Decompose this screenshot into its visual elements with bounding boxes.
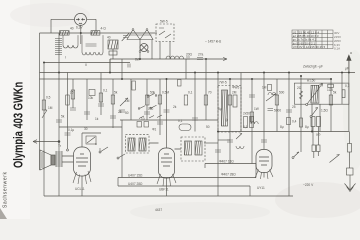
resistor Rd bbox=[178, 80, 182, 87]
wire rail x122 bbox=[121, 59, 123, 79]
band switch row 3 bbox=[139, 115, 162, 119]
tube V3 UY11 envelope bbox=[256, 150, 272, 173]
svg-text:25: 25 bbox=[118, 110, 122, 114]
ground symbol bbox=[345, 175, 356, 192]
wire rail x312 bbox=[311, 104, 313, 132]
svg-text:kv 95 60 30 6 2 1: kv 95 60 30 6 2 1 bbox=[293, 41, 316, 45]
tube V3 pins bbox=[255, 170, 273, 180]
svg-text:1Ω5: 1Ω5 bbox=[327, 88, 333, 92]
coil small L6 bbox=[236, 146, 244, 149]
resistor Rb bbox=[146, 95, 150, 105]
resistor Rn bbox=[71, 90, 75, 99]
svg-text:6,3V: 6,3V bbox=[76, 26, 83, 30]
capacitor Co bbox=[144, 112, 150, 114]
svg-text:Φ407 28Ω: Φ407 28Ω bbox=[221, 173, 236, 177]
capacitor Ce bbox=[192, 118, 198, 120]
capacitor Cg bbox=[249, 95, 255, 97]
oscillator coil bbox=[222, 90, 228, 126]
svg-text:UY11: UY11 bbox=[257, 186, 265, 190]
switch S1 bbox=[311, 108, 318, 117]
svg-text:5k: 5k bbox=[114, 91, 118, 95]
coil small L8 bbox=[251, 117, 258, 125]
resistor Rd2 bbox=[204, 95, 208, 105]
svg-text:0,5: 0,5 bbox=[46, 96, 51, 100]
tube V1 electrodes bbox=[76, 154, 88, 166]
svg-text:27a: 27a bbox=[198, 53, 204, 57]
switch S6 bbox=[330, 155, 340, 163]
wire rail x289 bbox=[288, 73, 290, 197]
band switch row 1 bbox=[149, 94, 155, 97]
svg-text:4·Ω: 4·Ω bbox=[101, 27, 107, 31]
svg-text:w.150: w.150 bbox=[307, 79, 316, 83]
potentiometer P3 bbox=[266, 94, 276, 101]
speaker magnet bbox=[51, 155, 55, 165]
wire rail x110 bbox=[109, 59, 111, 73]
svg-text:Φ1: Φ1 bbox=[152, 128, 157, 132]
IF T1 coil a bbox=[128, 138, 135, 151]
antenna coil winding bbox=[55, 39, 62, 55]
resistor Rc bbox=[184, 95, 188, 105]
svg-text:8μ: 8μ bbox=[305, 125, 309, 129]
variable core arrow bbox=[307, 84, 323, 105]
resistor Rm bbox=[111, 95, 115, 104]
junction dots bbox=[58, 72, 60, 74]
wire mid line bbox=[120, 119, 218, 121]
lamp La scale bbox=[140, 44, 148, 52]
svg-text:100: 100 bbox=[148, 107, 154, 111]
capacitor Cj bbox=[128, 64, 130, 68]
wire bus2 bbox=[40, 78, 332, 80]
IF transformer T2 box bbox=[181, 137, 205, 161]
wire x252 low bbox=[251, 140, 253, 164]
dashed box interior switch bbox=[159, 28, 171, 38]
svg-text:1W: 1W bbox=[254, 107, 259, 111]
svg-text:ΦW5: ΦW5 bbox=[232, 86, 240, 90]
wire osc bottom bbox=[218, 139, 230, 141]
svg-text:0,1μ: 0,1μ bbox=[68, 128, 74, 132]
resistor R24 bbox=[317, 117, 321, 127]
resistor R25 bbox=[312, 145, 316, 152]
wire rail x170 bbox=[169, 42, 171, 60]
svg-text:I: I bbox=[65, 56, 66, 60]
contact box b bbox=[144, 122, 149, 128]
resistor pair Ba bbox=[244, 117, 248, 128]
svg-text:a b: a b bbox=[316, 133, 321, 137]
wire rail x331 bbox=[330, 79, 332, 132]
svg-text:2M: 2M bbox=[232, 91, 237, 95]
output transformer bbox=[57, 152, 62, 166]
svg-text:8μ: 8μ bbox=[280, 125, 284, 129]
svg-text:2k: 2k bbox=[173, 105, 177, 109]
tube V4 electrodes bbox=[76, 18, 85, 23]
svg-text:U407 28Ω: U407 28Ω bbox=[128, 182, 143, 186]
svg-text:0,1: 0,1 bbox=[103, 89, 108, 93]
left margin strip bbox=[0, 0, 30, 219]
svg-text:30: 30 bbox=[84, 127, 88, 131]
svg-text:10: 10 bbox=[141, 117, 145, 121]
svg-text:5W·5: 5W·5 bbox=[160, 20, 168, 24]
resistor R2 hatched bbox=[91, 31, 100, 35]
tube V1 pins bbox=[73, 171, 91, 184]
speaker cone bbox=[40, 150, 51, 170]
IF transformer T1 box bbox=[126, 135, 150, 153]
wire rail x87 bbox=[86, 79, 88, 120]
resistor R23 bbox=[311, 117, 315, 127]
terminal circles bbox=[58, 29, 312, 159]
wire heater line 1 bbox=[205, 163, 256, 165]
tube V2 pins bbox=[157, 174, 176, 186]
wire rail x59 bbox=[58, 33, 60, 196]
wire rail x342 bbox=[341, 73, 343, 105]
svg-text:1M: 1M bbox=[125, 99, 130, 103]
wire bus1 bbox=[40, 72, 356, 74]
switch S2 bbox=[293, 152, 299, 158]
svg-text:gx 1x 7x 3x 8x 4 2: gx 1x 7x 3x 8x 4 2 bbox=[293, 38, 317, 42]
svg-text:U1 215 90 45 12 8 4: U1 215 90 45 12 8 4 bbox=[293, 30, 320, 34]
resistor Rl bbox=[158, 95, 162, 104]
svg-text:U407 15Ω: U407 15Ω bbox=[128, 174, 143, 178]
wire rail x348 bbox=[348, 57, 350, 132]
IF T1 coil b bbox=[139, 138, 146, 151]
wire rail x166 bbox=[166, 79, 168, 148]
svg-text:5k: 5k bbox=[333, 91, 337, 95]
small box R3 bbox=[109, 51, 117, 55]
svg-text:50k: 50k bbox=[150, 91, 156, 95]
capacitor Cn bbox=[110, 116, 116, 118]
resistor R27 bbox=[300, 118, 303, 127]
wire rail x147 bbox=[146, 79, 148, 120]
svg-text:0,1: 0,1 bbox=[345, 84, 350, 88]
arrow line end bbox=[223, 57, 227, 60]
svg-text:UBF11: UBF11 bbox=[159, 188, 169, 192]
svg-text:~ 1457 kHz: ~ 1457 kHz bbox=[205, 40, 222, 44]
resistor R20 bbox=[328, 84, 334, 87]
fuse holder bbox=[348, 144, 352, 153]
resistor Rh bbox=[329, 95, 333, 105]
svg-text:50: 50 bbox=[206, 125, 210, 129]
tuning capacitor C-var bbox=[127, 30, 153, 40]
wire tube3 pins bbox=[263, 173, 265, 178]
svg-text:Olympia 403 GWKn: Olympia 403 GWKn bbox=[12, 82, 26, 168]
svg-text:0,1: 0,1 bbox=[188, 91, 193, 95]
svg-text:Φ407 15Ω: Φ407 15Ω bbox=[219, 160, 234, 164]
connector box bbox=[347, 168, 354, 175]
resistor Rp bbox=[268, 85, 272, 91]
wire heater line 3 bbox=[118, 185, 250, 187]
svg-text:UCL11: UCL11 bbox=[75, 187, 85, 191]
wire rail x206 bbox=[205, 59, 207, 120]
wire heater line 2 bbox=[118, 177, 256, 179]
capacitor Cq bbox=[227, 140, 233, 142]
coil small L7 bbox=[268, 93, 276, 96]
wire phono line bbox=[33, 141, 59, 143]
contact box a bbox=[137, 122, 142, 128]
resistor R22 zigzag bbox=[300, 91, 303, 99]
wire if2 out bbox=[204, 142, 218, 144]
svg-text:8W: 8W bbox=[135, 58, 140, 62]
wire grid bus H2 bbox=[40, 32, 158, 34]
svg-text:7W·5: 7W·5 bbox=[219, 81, 227, 85]
svg-text:0,5M: 0,5M bbox=[162, 91, 169, 95]
resistor Rj bbox=[42, 100, 46, 110]
svg-text:5k: 5k bbox=[61, 115, 65, 119]
svg-text:2x50: 2x50 bbox=[243, 112, 250, 116]
dashed box filter bbox=[156, 24, 174, 42]
svg-text:Uf 6,3V 0,1A 215 30 25 5: Uf 6,3V 0,1A 215 30 25 5 bbox=[293, 45, 326, 49]
wire rail x230 bbox=[229, 79, 231, 164]
wire rail x117 bbox=[112, 49, 114, 59]
coil group L1 bbox=[63, 45, 78, 48]
svg-text:2Ω: 2Ω bbox=[297, 86, 302, 90]
oscillator box dashed bbox=[218, 86, 241, 133]
wire rail x160 bbox=[159, 42, 161, 60]
resistor Rq bbox=[287, 118, 291, 125]
svg-text:5000: 5000 bbox=[274, 109, 281, 113]
IF T2 coil b bbox=[195, 141, 202, 155]
resistor Ri bbox=[66, 95, 70, 105]
capacitor Ch bbox=[286, 110, 292, 112]
svg-text:1M: 1M bbox=[262, 86, 267, 90]
oscillator resistor bbox=[233, 95, 237, 107]
svg-text:a2 205 85 40 10 6 3: a2 205 85 40 10 6 3 bbox=[293, 34, 319, 38]
wire grid line tube1 bbox=[59, 120, 122, 178]
wire rail x101 bbox=[100, 73, 102, 116]
wire H3 bbox=[44, 59, 227, 73]
wire rail x73 bbox=[72, 79, 74, 108]
wire rail x277 bbox=[276, 79, 278, 132]
resistor Rk bbox=[99, 93, 103, 102]
coil group L2 bbox=[82, 52, 94, 55]
voltage table bbox=[292, 30, 333, 49]
jack box bbox=[86, 136, 96, 144]
capacitor Cp bbox=[157, 122, 163, 124]
svg-text:1k: 1k bbox=[95, 117, 99, 121]
tube V2 electrodes bbox=[161, 154, 172, 166]
svg-text:a: a bbox=[350, 51, 352, 55]
wire det line bbox=[149, 143, 181, 149]
switch S3 bbox=[100, 147, 108, 152]
wire rail x186 bbox=[185, 59, 187, 79]
svg-text:a: a bbox=[95, 142, 97, 146]
svg-text:20Ω: 20Ω bbox=[186, 53, 193, 57]
urdox resistor hatched bbox=[108, 40, 118, 49]
wire rail x160b bbox=[159, 79, 161, 135]
svg-text:10k: 10k bbox=[88, 96, 94, 100]
tube V1 UCL11 envelope bbox=[74, 147, 91, 176]
svg-text:Sachsenwerk: Sachsenwerk bbox=[3, 171, 9, 208]
resistor R21 bbox=[342, 90, 345, 98]
capacitor Cs bbox=[268, 109, 274, 111]
capacitor Ci bbox=[186, 57, 203, 60]
wire rail x218 bbox=[217, 73, 219, 197]
tube V2 UBF11 envelope bbox=[159, 148, 175, 178]
wire rail x44 bbox=[43, 63, 45, 197]
arrow phono bbox=[33, 140, 37, 144]
wire tube2 pins bbox=[166, 178, 168, 196]
capacitor Cf bbox=[215, 150, 221, 152]
svg-text:1,5Ω: 1,5Ω bbox=[321, 109, 328, 113]
capacitor Cd bbox=[164, 110, 170, 112]
svg-text:0,1: 0,1 bbox=[243, 125, 248, 129]
svg-text:II: II bbox=[85, 63, 87, 67]
wire heater left end bbox=[118, 164, 256, 197]
wire rail x264 bbox=[263, 73, 265, 150]
svg-text:Zwischgfr.~μF: Zwischgfr.~μF bbox=[303, 65, 323, 69]
wire rail x131 bbox=[130, 79, 132, 120]
resistor R1 hatched bbox=[60, 31, 70, 35]
svg-text:50: 50 bbox=[125, 111, 129, 115]
tuning cap midline bbox=[129, 34, 152, 36]
svg-text:0,1A: 0,1A bbox=[334, 47, 340, 51]
svg-text:70: 70 bbox=[208, 91, 212, 95]
svg-text:0,1: 0,1 bbox=[178, 119, 183, 123]
svg-text:5μ: 5μ bbox=[218, 107, 222, 111]
resistor Re bbox=[228, 95, 232, 105]
speaker cone inner bbox=[41, 152, 43, 168]
wire bottom right bus bbox=[218, 131, 349, 133]
lamp La cross bbox=[141, 45, 147, 51]
wire speaker link bbox=[62, 156, 74, 162]
svg-text:0,4: 0,4 bbox=[292, 120, 297, 124]
IF T2 coil a bbox=[185, 141, 192, 155]
capacitor Cb bbox=[65, 133, 71, 135]
resistor box Rg2 bbox=[89, 90, 95, 96]
wire rail x152 bbox=[151, 40, 153, 60]
switch S5 bbox=[236, 134, 242, 140]
resistor Ra bbox=[132, 81, 136, 90]
svg-text:40: 40 bbox=[70, 27, 74, 31]
potentiometer P1 bbox=[42, 110, 47, 118]
svg-text:40: 40 bbox=[107, 36, 111, 40]
wire top line bbox=[51, 19, 96, 33]
trimmer T1 bbox=[122, 33, 130, 41]
svg-text:1M: 1M bbox=[48, 106, 53, 110]
potentiometer P2 bbox=[120, 98, 128, 106]
svg-text:4437: 4437 bbox=[155, 208, 162, 212]
wire rail x67 bbox=[67, 73, 69, 151]
arrow up right bbox=[348, 56, 350, 73]
svg-text:μF: μF bbox=[345, 67, 349, 71]
svg-text:~220 V: ~220 V bbox=[303, 183, 314, 187]
coil group L3 bbox=[95, 52, 103, 55]
wire bottom rail bbox=[44, 195, 293, 197]
dropper coil L5 bbox=[311, 85, 319, 103]
switch S4 bbox=[118, 154, 125, 158]
oval can bbox=[179, 124, 191, 131]
capacitor Cl bbox=[84, 112, 90, 114]
wire rail x195 bbox=[194, 73, 196, 132]
wire rail x301 bbox=[300, 76, 302, 152]
wire mains pair bbox=[313, 127, 319, 159]
resistor Rg bbox=[275, 95, 279, 105]
bandfilter stubs bbox=[63, 35, 103, 52]
tube V3 electrodes bbox=[259, 157, 269, 165]
capacitor Ca bbox=[56, 120, 62, 122]
wire tube1 bottom bbox=[81, 176, 83, 196]
scan mottling bbox=[275, 182, 360, 218]
capacitor Cr bbox=[261, 140, 267, 142]
capacitor Ck bbox=[70, 108, 76, 110]
power section frame bbox=[294, 83, 349, 104]
svg-text:25: 25 bbox=[70, 91, 74, 95]
resistor Rf bbox=[250, 112, 254, 122]
wire rail x252 bbox=[251, 79, 253, 140]
svg-text:25: 25 bbox=[292, 105, 296, 109]
corner smudge bottom-left bbox=[0, 208, 7, 219]
wire rail x113b bbox=[112, 79, 114, 128]
svg-text:500: 500 bbox=[279, 91, 285, 95]
wire tube1 top bbox=[82, 133, 101, 147]
tube V4 eye circle bbox=[75, 13, 87, 25]
capacitor Cm bbox=[98, 104, 104, 106]
wire circle leads bbox=[80, 25, 82, 44]
capacitor Cc bbox=[119, 110, 125, 112]
wire ground lead bbox=[349, 132, 351, 169]
coil choke on line bbox=[166, 56, 184, 59]
band switch row 2 bbox=[140, 105, 157, 108]
resistor R26 bbox=[317, 145, 321, 152]
wire left rail bbox=[39, 33, 41, 170]
wire rail x140 bbox=[139, 40, 141, 60]
wire rail x241 bbox=[240, 73, 242, 132]
wire rail x320 bbox=[319, 104, 321, 132]
